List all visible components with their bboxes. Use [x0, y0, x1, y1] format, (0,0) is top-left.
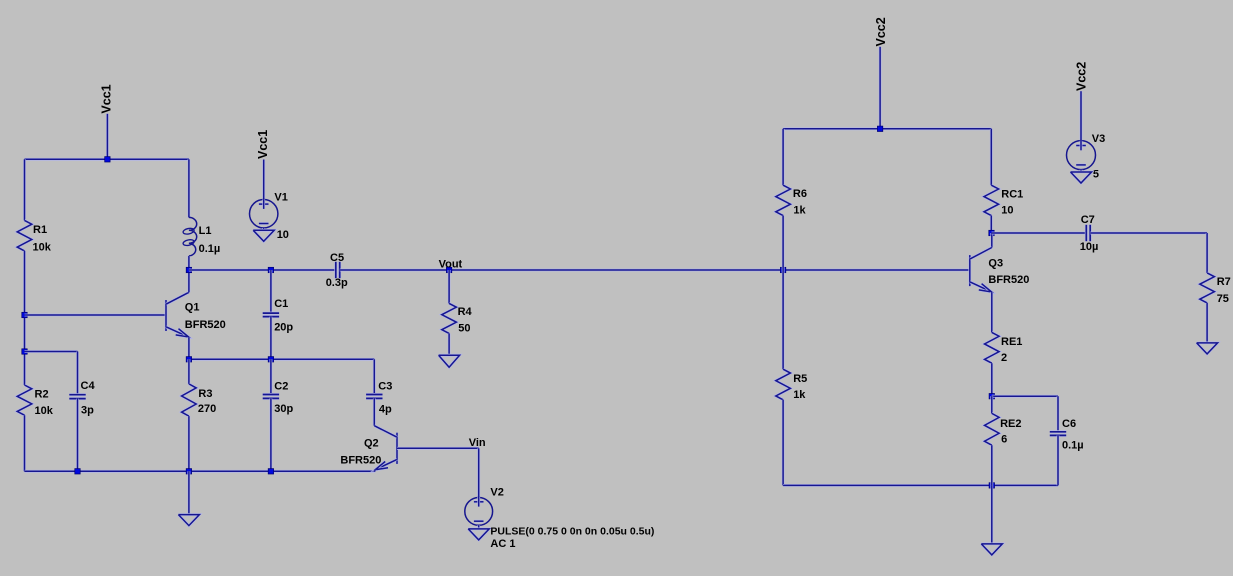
value R4 50 [458, 323, 470, 335]
transistor Q2 [374, 426, 397, 470]
wire Q1 collector lead [187, 270, 190, 292]
resistor R3 [182, 384, 197, 416]
label V3 [1092, 133, 1105, 145]
net Vin label [469, 437, 486, 449]
transistor Q1 [166, 292, 189, 337]
wire R5 bottom lead [782, 400, 785, 486]
value L1 0.1u [199, 243, 221, 255]
wire middle row y359 [189, 358, 374, 361]
svg-text:R1: R1 [33, 224, 47, 236]
svg-text:PULSE(0 0.75 0 0n 0n 0.05u 0.5: PULSE(0 0.75 0 0n 0n 0.05u 0.5u) [490, 526, 654, 538]
node junction C2/rail [268, 469, 273, 474]
label V1 [274, 192, 287, 204]
value RE2 6 [1001, 434, 1007, 446]
value R5 1k [793, 389, 806, 401]
wire Q1 base wire [25, 314, 167, 317]
label C1 [274, 298, 288, 310]
node junction Vcc2/top rail [877, 126, 882, 131]
label RC1 [1001, 189, 1023, 201]
svg-text:RE1: RE1 [1001, 336, 1022, 348]
wire R7 bottom lead [1206, 303, 1209, 343]
svg-text:50: 50 [458, 323, 470, 335]
svg-text:R7: R7 [1217, 276, 1231, 288]
svg-text:AC 1: AC 1 [490, 538, 515, 550]
resistor R7 [1200, 273, 1215, 303]
resistor R5 [776, 369, 791, 400]
wire R6 top lead [782, 129, 785, 185]
value C2 30p [274, 403, 293, 415]
wire R6 bottom lead [782, 216, 785, 270]
ground bottom-left [178, 515, 199, 526]
wire C6 bottom lead [1057, 435, 1060, 485]
svg-text:6: 6 [1001, 434, 1007, 446]
wire Q2 emitter stub [373, 470, 376, 471]
node junction C1 top [268, 267, 273, 272]
label C2 [274, 381, 288, 393]
ground below R4 [439, 355, 460, 367]
svg-text:3p: 3p [81, 404, 94, 416]
svg-text:Vcc1: Vcc1 [99, 84, 113, 113]
wire Vin drop to V2 [477, 448, 480, 497]
value V1 10 [277, 229, 289, 241]
label RE1 [1001, 336, 1022, 348]
label Q1 [185, 302, 200, 314]
node junction R2/C4 tap [22, 349, 27, 354]
wire R4 top lead [448, 270, 451, 303]
label C5 [330, 252, 344, 264]
value C3 4p [379, 404, 392, 416]
wire Vcc1 drop to top-left rail [106, 114, 109, 160]
svg-text:Vcc2: Vcc2 [874, 17, 888, 46]
svg-text:V2: V2 [490, 486, 503, 498]
svg-text:C4: C4 [81, 380, 96, 392]
wire RE2 bottom lead [990, 445, 993, 485]
svg-text:75: 75 [1217, 293, 1229, 305]
node junction RE2/rail/ground [989, 483, 994, 488]
wire R3 top lead [187, 359, 190, 384]
value C5 0.3p [326, 277, 348, 289]
value RC1 10 [1001, 205, 1013, 217]
net Vout label [439, 258, 463, 270]
label C4 [81, 380, 96, 392]
wire R7 drop [1206, 233, 1209, 273]
voltage source V2 [465, 497, 493, 528]
wire RC1 bottom lead [990, 216, 993, 233]
svg-text:10: 10 [277, 229, 289, 241]
wire V3 top lead [1080, 91, 1083, 140]
wire C6 top lead [1057, 396, 1060, 432]
node junction R5-R6 column [780, 267, 785, 272]
wire ground lead bottom-right [990, 485, 993, 544]
wire Q3 collector lead [990, 233, 993, 248]
net Vcc2 label (right) [1075, 62, 1089, 91]
svg-text:C7: C7 [1081, 214, 1095, 226]
svg-text:1k: 1k [793, 389, 806, 401]
wire top-right rail [783, 127, 991, 130]
wire output row left of C5 [189, 269, 336, 272]
svg-text:R6: R6 [793, 188, 807, 200]
capacitor C5 [336, 262, 340, 278]
svg-text:Q1: Q1 [185, 302, 200, 314]
label Q2 [364, 437, 379, 449]
ground bottom-right [981, 544, 1002, 555]
wire C3 top lead [373, 359, 376, 394]
wire C1 top lead [269, 270, 272, 313]
svg-text:C6: C6 [1062, 418, 1076, 430]
value V3 5 [1093, 168, 1099, 180]
svg-text:1k: 1k [793, 204, 806, 216]
svg-text:R5: R5 [793, 373, 807, 385]
node junction RE1/RE2/C6 [989, 394, 994, 399]
wire C4 branch horizontal [25, 350, 78, 353]
node junction base wire tap [22, 312, 27, 317]
wire C1 bottom lead [269, 317, 272, 360]
resistor R1 [17, 220, 32, 251]
value V2 AC 1 [490, 538, 515, 550]
wire C7 row right [1090, 232, 1207, 235]
wire bottom-right ground rail [783, 484, 1058, 487]
svg-text:10k: 10k [35, 405, 54, 417]
wire RC1 top lead [990, 129, 993, 185]
svg-text:30p: 30p [274, 403, 293, 415]
value C4 3p [81, 404, 94, 416]
svg-text:L1: L1 [199, 225, 212, 237]
label R5 [793, 373, 807, 385]
wire C2 top lead [269, 359, 272, 394]
capacitor C3 [366, 395, 382, 399]
label C6 [1062, 418, 1076, 430]
svg-text:0.3p: 0.3p [326, 277, 348, 289]
wire R1 bottom to R2 top [23, 251, 26, 385]
node junction Q1 emitter/R3 [186, 357, 191, 362]
svg-text:20p: 20p [274, 321, 293, 333]
value R7 75 [1217, 293, 1229, 305]
wire R2 bottom lead [23, 415, 26, 471]
node junction Vout/R4 [446, 267, 451, 272]
svg-text:Vcc1: Vcc1 [256, 130, 270, 159]
value R2 10k [35, 405, 54, 417]
inductor L1 [183, 159, 197, 270]
svg-text:C1: C1 [274, 298, 288, 310]
label C3 [378, 381, 392, 393]
transistor Q3 [970, 248, 992, 293]
label R6 [793, 188, 807, 200]
svg-text:BFR520: BFR520 [340, 454, 381, 466]
svg-text:R3: R3 [198, 388, 212, 400]
wire R4 bottom lead [448, 333, 451, 355]
value C1 20p [274, 321, 293, 333]
value C7 10u [1080, 241, 1099, 253]
wire ground lead bottom-left [187, 471, 190, 514]
capacitor C1 [263, 313, 279, 317]
wire Vcc2 drop [879, 47, 882, 129]
value R3 270 [198, 403, 216, 415]
label Q3 [988, 257, 1003, 269]
node junction L1 bottom / collector [186, 267, 191, 272]
svg-text:R4: R4 [458, 306, 473, 318]
label RE2 [1000, 418, 1021, 430]
label V2 [490, 486, 503, 498]
value Q3 BFR520 [988, 274, 1029, 286]
node junction RC1/Q3 collector/C7 [989, 230, 994, 235]
value RE1 2 [1001, 352, 1007, 364]
svg-text:RC1: RC1 [1001, 189, 1023, 201]
svg-text:0.1µ: 0.1µ [1062, 439, 1084, 451]
wire output row right of C5 [340, 269, 970, 272]
value R1 10k [33, 242, 52, 254]
capacitor C4 [69, 395, 85, 399]
svg-text:V3: V3 [1092, 133, 1105, 145]
svg-text:Vcc2: Vcc2 [1075, 62, 1089, 91]
resistor RE1 [985, 332, 1000, 363]
resistor R6 [776, 185, 791, 215]
node junction C1/C2 [268, 357, 273, 362]
svg-text:Vin: Vin [469, 437, 486, 449]
label R7 [1217, 276, 1231, 288]
svg-text:C2: C2 [274, 381, 288, 393]
wire C6 branch horizontal [992, 395, 1058, 398]
wire Q1 emitter lead [187, 337, 190, 359]
wire Q2 base to Vin [397, 447, 479, 450]
value Q2 BFR520 [340, 454, 381, 466]
svg-text:10: 10 [1001, 205, 1013, 217]
label L1 [199, 225, 212, 237]
wire top-left rail [25, 158, 189, 161]
svg-text:C5: C5 [330, 252, 344, 264]
wire bottom-left ground rail [25, 470, 376, 473]
ground below V1 [253, 230, 274, 241]
resistor RE2 [985, 413, 1000, 445]
svg-text:Q3: Q3 [988, 257, 1003, 269]
ground below V3 [1071, 172, 1092, 183]
value C6 0.1u [1062, 439, 1084, 451]
node junction Vcc1/top-left rail [105, 157, 110, 162]
label R3 [198, 388, 212, 400]
svg-text:BFR520: BFR520 [988, 274, 1029, 286]
svg-text:R2: R2 [35, 388, 49, 400]
net Vcc1 label (left) [99, 84, 113, 113]
capacitor C7 [1086, 225, 1090, 241]
svg-text:C3: C3 [378, 381, 392, 393]
ground below V2 [468, 529, 489, 540]
svg-text:10µ: 10µ [1080, 241, 1099, 253]
label R4 [458, 306, 473, 318]
value R6 1k [793, 204, 806, 216]
wire RE2 top lead [990, 396, 993, 413]
wire R3 bottom lead [187, 416, 190, 471]
node junction R3/rail/ground [186, 469, 191, 474]
svg-text:10k: 10k [33, 242, 52, 254]
wire C4 top lead [76, 352, 79, 395]
net Vcc1 label (V1) [256, 130, 270, 159]
wire R1 top lead [23, 159, 26, 220]
label C7 [1081, 214, 1095, 226]
svg-text:0.1µ: 0.1µ [199, 243, 221, 255]
voltage source V3 [1067, 141, 1096, 173]
wire C4 bottom lead [76, 399, 79, 472]
wire R5 top lead [782, 270, 785, 369]
resistor RC1 [984, 185, 999, 215]
svg-text:270: 270 [198, 403, 216, 415]
resistor R4 [442, 303, 457, 333]
net Vcc2 label (left) [874, 17, 888, 46]
svg-text:5: 5 [1093, 168, 1099, 180]
svg-text:Q2: Q2 [364, 437, 379, 449]
value V2 PULSE [490, 526, 654, 538]
ground below R7 [1197, 343, 1218, 354]
wire Q3 emitter lead [990, 292, 993, 332]
wire C3 bottom lead [373, 398, 376, 425]
svg-text:BFR520: BFR520 [185, 319, 226, 331]
capacitor C2 [263, 395, 279, 399]
svg-text:2: 2 [1001, 352, 1007, 364]
value Q1 BFR520 [185, 319, 226, 331]
node junction C4/rail [75, 469, 80, 474]
svg-text:RE2: RE2 [1000, 418, 1021, 430]
resistor R2 [17, 385, 32, 415]
svg-text:V1: V1 [274, 192, 287, 204]
wire C2 bottom lead [269, 398, 272, 471]
wire RE1 bottom lead [990, 363, 993, 396]
svg-text:4p: 4p [379, 404, 392, 416]
capacitor C6 [1050, 432, 1066, 436]
voltage source V1 [250, 199, 278, 230]
wire V1 top lead [262, 160, 265, 200]
wire C7 row left [992, 232, 1087, 235]
label R1 [33, 224, 47, 236]
label R2 [35, 388, 49, 400]
